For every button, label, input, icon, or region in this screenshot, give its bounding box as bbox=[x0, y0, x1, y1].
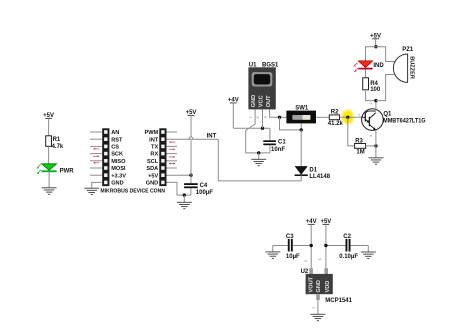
wire SW1 bottom pin bbox=[300, 123, 302, 129]
ground (C4) bbox=[177, 202, 192, 208]
svg-text:3: 3 bbox=[318, 258, 322, 260]
U1 pin labels GND VCC OUT bbox=[251, 95, 272, 107]
svg-text:1: 1 bbox=[249, 116, 253, 118]
regulator U2 MCP1541 bbox=[301, 258, 353, 309]
transistor Q1 MMBT6427LT1G bbox=[358, 102, 426, 137]
junction VCC bbox=[261, 127, 264, 130]
resistor R2 bbox=[328, 109, 344, 127]
signal arrow TX bbox=[169, 141, 175, 143]
svg-text:100: 100 bbox=[370, 87, 381, 93]
switch SW1 bbox=[286, 106, 316, 124]
signal arrow SCL bbox=[169, 156, 175, 158]
wire LED to R4 bbox=[365, 69, 367, 77]
svg-text:10µF: 10µF bbox=[286, 254, 300, 260]
svg-text:PWR: PWR bbox=[60, 169, 75, 175]
svg-text:AN: AN bbox=[111, 130, 119, 136]
svg-text:CS: CS bbox=[111, 145, 119, 151]
svg-text:R1: R1 bbox=[53, 137, 61, 143]
capacitor C3 bbox=[273, 234, 311, 260]
svg-text:C4: C4 bbox=[200, 183, 208, 189]
sensor U1 body bbox=[248, 67, 275, 109]
capacitor C2 bbox=[326, 234, 368, 260]
junction +5V / C2 bbox=[324, 244, 327, 247]
wire right header GND pin bbox=[167, 182, 192, 195]
svg-text:GND: GND bbox=[251, 95, 257, 107]
svg-text:3: 3 bbox=[263, 116, 267, 118]
svg-text:RST: RST bbox=[111, 137, 123, 143]
mikrobus header left column bbox=[102, 128, 109, 186]
wire right header +5V pin bbox=[167, 174, 192, 176]
signal arrow CS bbox=[93, 148, 99, 150]
svg-text:C1: C1 bbox=[278, 140, 286, 146]
svg-text:BGS1: BGS1 bbox=[262, 63, 279, 69]
ground (U1/C1) bbox=[251, 153, 266, 166]
signal arrow RX bbox=[169, 148, 175, 150]
wire SW1 jumper bbox=[280, 117, 302, 130]
svg-text:D1: D1 bbox=[309, 167, 317, 173]
resistor R3 bbox=[355, 138, 366, 155]
junction +4V / C3 bbox=[310, 244, 313, 247]
wire R1 to LED bbox=[48, 146, 50, 164]
svg-text:U2: U2 bbox=[301, 269, 309, 275]
wire SW1 to R2 bbox=[316, 116, 329, 118]
svg-text:SW1: SW1 bbox=[295, 106, 309, 112]
wire D1 anode bbox=[300, 130, 302, 166]
power +4V (bottom) bbox=[306, 219, 317, 268]
wire R4 to collector node bbox=[366, 90, 376, 101]
ground (C2) bbox=[361, 246, 376, 259]
wire LED to ground bbox=[48, 172, 50, 188]
svg-text:+5V: +5V bbox=[148, 173, 158, 179]
svg-text:0.10µF: 0.10µF bbox=[339, 254, 358, 260]
resistor R4 bbox=[363, 78, 381, 93]
junction GND / C4 / ground bbox=[183, 193, 186, 196]
svg-text:R4: R4 bbox=[370, 81, 378, 87]
signal arrow MISO bbox=[93, 162, 99, 164]
wire base node to R3 bbox=[348, 117, 355, 146]
svg-text:10nF: 10nF bbox=[271, 147, 285, 153]
junction +5V pin / C4 bbox=[189, 174, 192, 177]
wire rail to LED bbox=[366, 47, 376, 61]
ground (C3) bbox=[265, 246, 280, 259]
junction collector node bbox=[374, 99, 377, 102]
svg-text:2: 2 bbox=[369, 102, 373, 104]
svg-text:1M: 1M bbox=[356, 149, 364, 155]
svg-text:Q1: Q1 bbox=[383, 112, 392, 118]
wire D1 cathode bbox=[300, 175, 302, 181]
capacitor C4 bbox=[184, 183, 213, 196]
svg-text:4.7k: 4.7k bbox=[52, 144, 64, 150]
svg-text:MOSI: MOSI bbox=[111, 166, 126, 172]
wire C4 to ground bbox=[190, 188, 192, 195]
signal arrow SCK bbox=[93, 155, 99, 157]
wire U2 GND to ground bbox=[317, 300, 319, 314]
U1 pin numbers bbox=[249, 116, 268, 118]
svg-text:41.2k: 41.2k bbox=[328, 121, 344, 127]
svg-text:RX: RX bbox=[150, 152, 158, 158]
svg-text:C2: C2 bbox=[343, 234, 351, 240]
svg-text:INT: INT bbox=[207, 133, 217, 139]
svg-text:MISO: MISO bbox=[111, 159, 126, 165]
svg-text:2: 2 bbox=[256, 116, 260, 118]
svg-text:BUZZER: BUZZER bbox=[408, 56, 414, 79]
wire Q1 collector bbox=[375, 101, 377, 111]
svg-text:+3.3V: +3.3V bbox=[111, 173, 126, 179]
wire buzzer branch bbox=[376, 47, 396, 62]
svg-text:MIKROBUS DEVICE CONN: MIKROBUS DEVICE CONN bbox=[100, 188, 165, 194]
ground (left header) bbox=[84, 188, 99, 194]
capacitor C1 bbox=[263, 128, 286, 153]
diode D1 LL4148 bbox=[295, 166, 331, 180]
right header pin name labels bbox=[145, 130, 159, 186]
svg-text:MCP1541: MCP1541 bbox=[325, 298, 352, 304]
wire R3 to emitter bbox=[366, 145, 376, 147]
junction SW1 bottom bbox=[300, 128, 303, 131]
svg-text:VCC: VCC bbox=[259, 95, 265, 107]
svg-text:SCK: SCK bbox=[111, 152, 123, 158]
svg-text:TX: TX bbox=[151, 145, 158, 151]
wire left header GND to ground bbox=[92, 182, 103, 188]
power +5V (top right) bbox=[370, 33, 381, 46]
svg-text:MMBT6427LT1G: MMBT6427LT1G bbox=[383, 119, 426, 125]
svg-text:R3: R3 bbox=[355, 138, 363, 144]
junction emitter/R3 bbox=[374, 144, 377, 147]
svg-text:C3: C3 bbox=[286, 234, 294, 240]
junction OUT/SW1 bbox=[278, 116, 281, 119]
right header stub wires bbox=[167, 132, 178, 168]
ground (PWR LED) bbox=[42, 188, 57, 194]
net INT wire bbox=[167, 138, 219, 140]
power +5V (middle) bbox=[186, 110, 197, 136]
svg-text:SCL: SCL bbox=[147, 159, 159, 165]
junction base node bbox=[346, 116, 349, 119]
wire Q1 emitter bbox=[375, 130, 377, 158]
svg-text:1: 1 bbox=[358, 113, 360, 117]
svg-text:LL4148: LL4148 bbox=[309, 174, 330, 180]
svg-text:OUT: OUT bbox=[266, 95, 272, 107]
svg-text:GND: GND bbox=[316, 280, 322, 292]
svg-text:PZ1: PZ1 bbox=[402, 47, 414, 53]
ground (U2) bbox=[310, 314, 325, 320]
wire +4V to VCC bbox=[233, 127, 270, 129]
power +5V (bottom) bbox=[320, 219, 331, 268]
wire U1 VCC pin bbox=[262, 109, 264, 128]
wire U1 GND pin bbox=[246, 109, 270, 152]
wire R2 to Q1 base bbox=[340, 116, 362, 118]
svg-text:100µF: 100µF bbox=[196, 190, 213, 196]
ground (Q1 emitter) bbox=[369, 158, 384, 164]
junction GND/C1/ground bbox=[257, 151, 260, 154]
mikrobus header right column bbox=[159, 128, 166, 186]
signal arrow SDA bbox=[169, 163, 175, 165]
svg-text:SDA: SDA bbox=[146, 166, 158, 172]
buzzer PZ1 bbox=[393, 47, 414, 82]
svg-text:INT: INT bbox=[149, 137, 159, 143]
svg-text:VOUT: VOUT bbox=[309, 276, 315, 292]
power +5V (left) bbox=[43, 113, 54, 136]
wire hop over INT bbox=[188, 136, 193, 183]
svg-text:GND: GND bbox=[146, 181, 158, 187]
svg-text:R2: R2 bbox=[331, 109, 339, 115]
LED PWR (green) bbox=[36, 164, 74, 175]
left header pin name labels bbox=[111, 130, 126, 186]
svg-text:PWM: PWM bbox=[145, 130, 159, 136]
svg-text:2: 2 bbox=[304, 260, 308, 262]
junction +5V rail bbox=[374, 45, 377, 48]
resistor R1 bbox=[46, 136, 64, 150]
LED IND (red) bbox=[353, 61, 384, 72]
wire U1 OUT pin bbox=[270, 109, 287, 117]
svg-text:3: 3 bbox=[369, 135, 373, 137]
svg-text:1: 1 bbox=[312, 307, 316, 309]
svg-text:U1: U1 bbox=[249, 63, 257, 69]
power +4V (top) bbox=[228, 98, 239, 129]
left header pin wires bbox=[90, 132, 102, 175]
svg-text:IND: IND bbox=[373, 63, 384, 69]
svg-text:GND: GND bbox=[111, 181, 123, 187]
svg-text:VDD: VDD bbox=[325, 281, 331, 293]
